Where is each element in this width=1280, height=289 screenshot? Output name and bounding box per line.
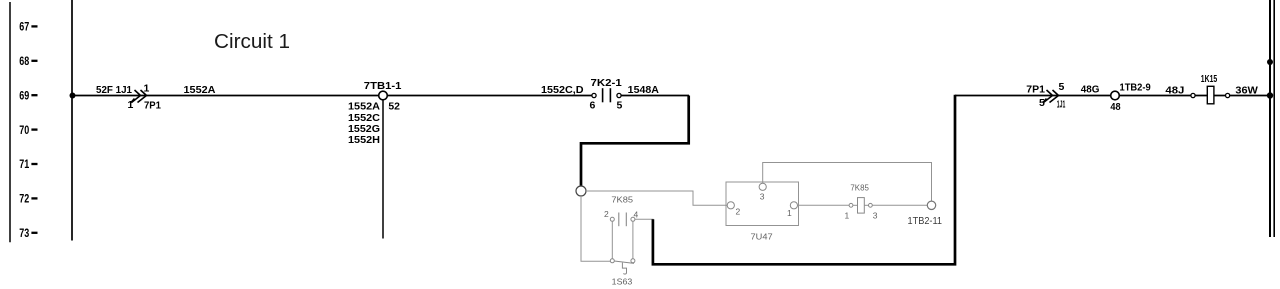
svg-text:7K85: 7K85 (850, 182, 869, 192)
svg-text:36W: 36W (1235, 85, 1258, 97)
right bus line B (1273, 0, 1275, 237)
switch 1S63 (610, 259, 635, 287)
svg-text:67: 67 (19, 22, 29, 34)
svg-text:1548A: 1548A (628, 84, 660, 96)
svg-text:48J: 48J (1165, 85, 1184, 97)
svg-text:72: 72 (19, 194, 29, 206)
left power bus (71, 0, 73, 241)
wire line 69 left segment (72, 95, 592, 97)
svg-text:1552C,D: 1552C,D (541, 84, 584, 96)
wire down to device 52 (382, 100, 384, 239)
svg-text:1552H: 1552H (348, 134, 380, 146)
line number 70 (19, 125, 37, 137)
connector 7P1 pin 1 (131, 90, 147, 103)
svg-text:3: 3 (873, 210, 878, 220)
svg-text:73: 73 (19, 228, 29, 240)
svg-text:48: 48 (1110, 101, 1120, 113)
junction dot upper right bus (1267, 59, 1273, 65)
svg-text:6: 6 (590, 99, 596, 111)
connector 7P1 pin 5 (1043, 90, 1059, 103)
svg-text:68: 68 (19, 56, 29, 68)
line number 71 (19, 159, 37, 171)
thick return wire (653, 95, 955, 264)
svg-text:3: 3 (760, 192, 765, 202)
gray wire node to 7U47 pin 2 (586, 191, 727, 205)
node circle (zone connector) (576, 186, 586, 196)
svg-text:1TB2-11: 1TB2-11 (908, 215, 943, 227)
gray wire contact pin4 down (632, 221, 634, 258)
thick wire down to node (581, 96, 689, 187)
svg-text:7U47: 7U47 (751, 231, 773, 241)
gray wire contact pin2 down (611, 221, 613, 258)
line number 73 (19, 228, 37, 240)
svg-text:7P1: 7P1 (144, 100, 161, 112)
svg-text:48G: 48G (1081, 83, 1100, 95)
svg-text:5: 5 (617, 99, 623, 111)
svg-text:1S63: 1S63 (612, 276, 633, 286)
contact 7K85 pins 2,4 (604, 195, 639, 227)
svg-text:7P1: 7P1 (1026, 83, 1045, 95)
svg-text:7TB1-1: 7TB1-1 (364, 80, 402, 92)
svg-text:7K2-1: 7K2-1 (591, 77, 622, 89)
svg-text:1552C: 1552C (348, 112, 380, 124)
svg-text:4: 4 (634, 209, 639, 219)
wire contact to corner (621, 95, 689, 97)
gray wire contact pin4 to thick return (635, 218, 654, 220)
contact 7K2-1 (590, 77, 623, 112)
gray wire node to 7K85 contact branch (581, 196, 610, 261)
svg-text:1: 1 (128, 99, 134, 111)
svg-text:5: 5 (1059, 81, 1065, 93)
svg-text:52F 1J1: 52F 1J1 (96, 84, 132, 96)
device box 7U47 (726, 182, 799, 241)
svg-text:1: 1 (787, 208, 792, 218)
gray wire 7U47 pin1 to coil (798, 204, 850, 206)
svg-text:1K15: 1K15 (1201, 73, 1217, 85)
svg-text:5: 5 (1039, 97, 1045, 109)
svg-text:71: 71 (19, 159, 29, 171)
svg-text:2: 2 (604, 209, 609, 219)
line number 69 (19, 90, 37, 102)
svg-text:2: 2 (736, 207, 741, 217)
svg-text:Circuit 1: Circuit 1 (214, 31, 290, 53)
svg-text:1TB2-9: 1TB2-9 (1120, 82, 1151, 94)
gray wire coil to 1TB2-11 (872, 204, 927, 206)
junction dot line 69 at right bus (1267, 92, 1273, 98)
right bus line A (1269, 0, 1271, 237)
svg-text:52: 52 (388, 101, 400, 113)
svg-text:7K85: 7K85 (611, 195, 633, 205)
svg-text:1J1: 1J1 (1057, 99, 1066, 111)
gray wire 7U47 pin3 to 1TB2-11 (763, 163, 932, 202)
svg-text:1552G: 1552G (348, 123, 380, 135)
svg-text:69: 69 (19, 90, 29, 102)
line number 67 (19, 22, 37, 34)
svg-text:1552A: 1552A (184, 84, 216, 96)
svg-text:1: 1 (845, 210, 850, 220)
wire line 69 right segment (955, 95, 1270, 97)
net labels 1552A 1552C 1552G 1552H (348, 101, 380, 147)
junction dot on left bus at line 69 (70, 93, 76, 99)
terminal 1TB2-9 (1111, 91, 1120, 100)
terminal 7TB1-1 (379, 91, 388, 100)
svg-text:1: 1 (144, 83, 150, 95)
svg-text:70: 70 (19, 125, 29, 137)
terminal 1TB2-11 (927, 201, 935, 209)
line number 72 (19, 194, 37, 206)
relay coil 7K85 pins 1,3 (845, 182, 878, 220)
line number 68 (19, 56, 37, 68)
fuse 1K15 (1191, 73, 1230, 104)
